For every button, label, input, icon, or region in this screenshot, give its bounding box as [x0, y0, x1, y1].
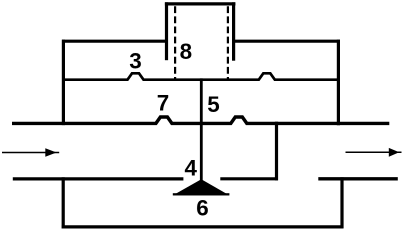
left housing wall upper — [62, 40, 65, 126]
chimney right wall — [232, 2, 235, 60]
chimney left wall — [165, 2, 168, 60]
left housing wall lower — [62, 177, 65, 228]
pocket right wall — [275, 122, 278, 181]
valve stem 4 — [200, 78, 203, 181]
pocket bottom line — [220, 177, 278, 180]
chimney 8 top line — [165, 2, 236, 5]
pipe bottom line right — [318, 177, 398, 180]
svg-text:8: 8 — [180, 39, 192, 64]
left flow arrow head — [45, 148, 56, 157]
svg-text:6: 6 — [196, 195, 208, 220]
valve disc base bar — [173, 193, 230, 195]
left flow arrow shaft — [2, 152, 59, 154]
valve disc 6 (filled triangle) — [173, 179, 230, 195]
upper housing top line left segment — [62, 40, 167, 43]
upper housing top line right segment — [233, 40, 340, 43]
right flow arrow head — [389, 148, 399, 157]
right housing wall lower — [340, 177, 343, 228]
dashed line left (port 8 bore) — [174, 6, 176, 79]
right flow arrow shaft — [346, 151, 402, 153]
membrane line 3 with bumps — [62, 73, 340, 79]
right housing wall upper — [337, 40, 340, 126]
svg-text:7: 7 — [157, 91, 169, 116]
dashed line right (port 8 bore) — [227, 6, 229, 79]
pipe bottom line left — [13, 177, 184, 180]
pipe top line with bumps 7 — [12, 117, 389, 123]
svg-text:5: 5 — [207, 92, 219, 117]
svg-text:3: 3 — [129, 48, 141, 73]
svg-text:4: 4 — [184, 155, 197, 180]
housing bottom line — [62, 225, 344, 228]
